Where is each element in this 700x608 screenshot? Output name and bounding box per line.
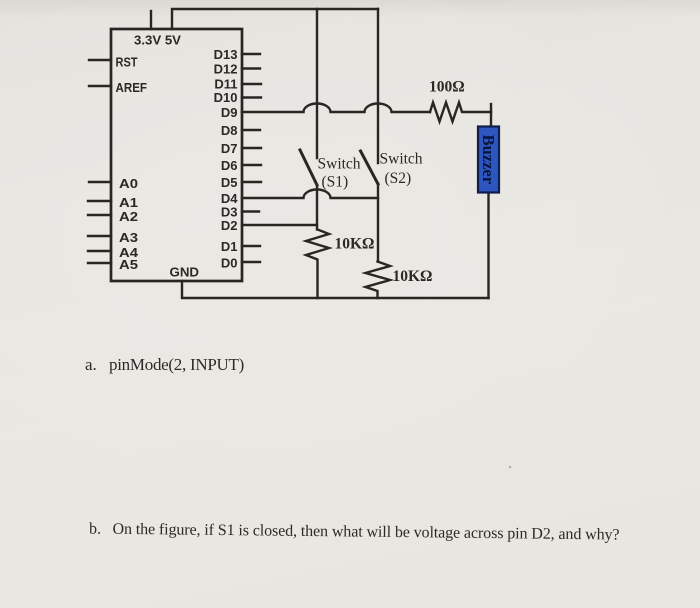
wire buzzer bottom drop: [487, 192, 489, 298]
svg-text:D5: D5: [221, 175, 238, 190]
speck: [509, 466, 512, 469]
svg-text:D13: D13: [214, 47, 238, 62]
svg-text:On the figure, if S1 is closed: On the figure, if S1 is closed, then wha…: [112, 521, 619, 544]
pin 3.3V stub: [150, 11, 152, 29]
pin D10 stub: [242, 96, 261, 98]
node buzzer plus tick: [490, 104, 492, 112]
wire to buzzer top: [490, 112, 492, 126]
svg-text:Buzzer: Buzzer: [479, 135, 498, 184]
svg-text:3.3V 5V: 3.3V 5V: [134, 33, 181, 48]
svg-text:b.: b.: [89, 521, 101, 538]
wire GND bottom rail: [182, 281, 489, 298]
svg-text:(S1): (S1): [322, 174, 349, 191]
svg-text:Switch: Switch: [380, 151, 423, 168]
svg-text:a.: a.: [85, 355, 97, 374]
svg-text:GND: GND: [170, 265, 200, 280]
wire S1 lower branch: [316, 186, 318, 230]
IC U1 Arduino body: [111, 29, 242, 281]
svg-text:pinMode(2, INPUT): pinMode(2, INPUT): [109, 355, 244, 374]
svg-text:D8: D8: [221, 123, 238, 138]
pin D0 stub: [242, 261, 260, 263]
svg-text:D6: D6: [221, 158, 238, 173]
wire D2 net: [242, 224, 317, 226]
svg-text:A5: A5: [119, 257, 138, 272]
svg-text:D12: D12: [214, 62, 238, 77]
svg-text:D1: D1: [221, 239, 238, 254]
svg-text:10KΩ: 10KΩ: [393, 268, 433, 285]
wire 5V rail: [172, 9, 378, 29]
svg-text:D2: D2: [221, 218, 238, 233]
resistor R1 100ohm: [430, 103, 491, 122]
svg-text:A3: A3: [119, 230, 138, 245]
question b text: [89, 521, 620, 544]
pin D12 stub: [242, 67, 260, 69]
buzzer BZ1: [478, 127, 499, 193]
pin D11 stub: [242, 83, 261, 85]
pin D6 stub: [242, 164, 261, 166]
wire S2 lower branch: [377, 184, 379, 262]
pin D5 stub: [242, 181, 261, 183]
svg-text:RST: RST: [116, 55, 138, 70]
pin A1 stub: [88, 200, 111, 202]
svg-text:D10: D10: [214, 90, 238, 105]
pin D3 stub: [242, 210, 259, 212]
wire S2 top drop: [377, 9, 379, 163]
wire D4 net with hop: [242, 190, 378, 199]
svg-text:100Ω: 100Ω: [429, 79, 465, 96]
switch S1 blade: [300, 150, 317, 185]
svg-text:Switch: Switch: [318, 156, 361, 173]
svg-text:AREF: AREF: [116, 80, 148, 95]
switch S2 blade: [361, 151, 379, 184]
pin A4 stub: [88, 250, 111, 252]
pin AREF stub: [89, 85, 111, 87]
svg-text:D7: D7: [221, 141, 238, 156]
resistor R3 10Kohm: [366, 262, 391, 299]
pin D8 stub: [242, 129, 260, 131]
svg-text:D0: D0: [221, 256, 238, 271]
pin A3 stub: [88, 235, 111, 237]
wire D9 net with hops: [242, 104, 430, 113]
svg-text:D9: D9: [221, 105, 238, 120]
svg-text:10KΩ: 10KΩ: [335, 236, 375, 253]
pin RST stub: [89, 59, 111, 61]
pin D1 stub: [242, 245, 260, 247]
svg-text:A2: A2: [119, 209, 138, 224]
pin A0 stub: [89, 181, 111, 183]
pin D13 stub: [242, 53, 260, 55]
pin D7 stub: [242, 147, 261, 149]
pin A5 stub: [88, 262, 111, 264]
svg-text:(S2): (S2): [385, 170, 412, 187]
pin A2 stub: [88, 214, 111, 216]
wire S1 top drop: [316, 9, 318, 158]
resistor R2 10Kohm: [306, 230, 329, 299]
svg-text:A1: A1: [119, 195, 138, 210]
svg-text:A0: A0: [119, 176, 138, 191]
